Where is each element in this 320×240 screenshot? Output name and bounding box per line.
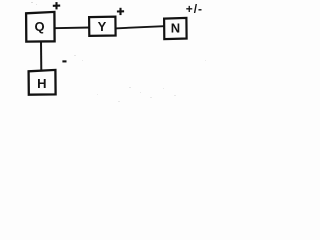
box H [29,70,56,95]
wire Q-H [40,42,42,72]
plus sign at Y [117,8,124,15]
plus sign at Q [53,2,60,9]
wire Q-Y [54,27,90,30]
wire Y-N [115,26,164,28]
svg-text:H: H [37,76,46,91]
box Q [26,12,54,42]
svg-text:+/-: +/- [186,2,203,16]
svg-text:Q: Q [35,19,45,34]
minus sign at H [62,60,66,62]
svg-text:N: N [171,21,180,36]
box Y [89,17,116,36]
box N [164,18,187,39]
svg-text:Y: Y [98,19,107,34]
